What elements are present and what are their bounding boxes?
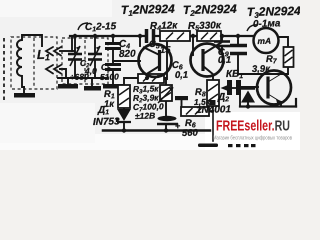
- svg-text:Магазин бесплатных цифровых то: Магазин бесплатных цифровых товаров: [213, 136, 292, 142]
- svg-text:FREEseller.RU: FREEseller.RU: [216, 118, 290, 135]
